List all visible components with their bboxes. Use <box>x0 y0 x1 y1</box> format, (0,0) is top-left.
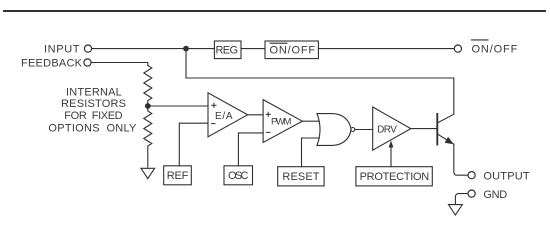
svg-text:ON/OFF: ON/OFF <box>270 44 316 56</box>
RESET box <box>278 167 324 186</box>
wire GND terminal to ground <box>455 194 468 205</box>
junction input node dot <box>183 46 189 52</box>
svg-text:RESISTORS: RESISTORS <box>61 98 126 110</box>
svg-text:FEEDBACK: FEEDBACK <box>21 58 83 70</box>
svg-text:GND: GND <box>483 189 507 201</box>
wire REF riser to E/A - input <box>179 123 208 166</box>
PROTECTION box <box>356 167 432 186</box>
wire PROTECTION riser <box>390 147 392 167</box>
wire gate bubble to DRV <box>355 129 373 131</box>
wire E/A output to PWM + input <box>248 114 264 116</box>
transistor Q1 emitter <box>437 134 454 144</box>
minus sign PWM <box>266 131 271 133</box>
node ON/OFF terminal <box>454 45 461 52</box>
resistor R1 <box>144 66 152 104</box>
ground (open arrow) at GND <box>449 205 463 215</box>
svg-text:E/A: E/A <box>215 111 233 122</box>
plus sign E/A <box>211 104 216 106</box>
junction feedback divider node dot <box>145 103 151 109</box>
svg-text:OUTPUT: OUTPUT <box>483 170 529 182</box>
NOR gate U3 <box>317 114 351 146</box>
REF box <box>164 166 192 185</box>
svg-text:PWM: PWM <box>271 117 291 128</box>
node OUTPUT terminal <box>468 172 475 179</box>
wire INPUT to REG <box>92 48 215 50</box>
driver DRV <box>373 107 411 150</box>
transistor Q1 base bar <box>436 114 438 145</box>
svg-text:ON/OFF: ON/OFF <box>472 44 518 56</box>
transistor Q1 collector <box>437 114 454 123</box>
svg-text:REG: REG <box>216 44 239 56</box>
svg-text:RESET: RESET <box>282 171 319 183</box>
REG box <box>214 41 241 59</box>
wire REG to ON/OFF box <box>241 48 265 50</box>
svg-text:FOR FIXED: FOR FIXED <box>64 110 122 122</box>
svg-text:PROTECTION: PROTECTION <box>360 171 430 183</box>
wire power path junction to transistor collector <box>186 49 454 115</box>
wire OSC riser to PWM - input <box>238 133 263 166</box>
resistor R2 <box>144 109 152 167</box>
comparator PWM <box>263 100 302 143</box>
wire RESET riser to gate lower input <box>302 138 320 167</box>
svg-text:INTERNAL: INTERNAL <box>66 86 122 98</box>
node FEEDBACK terminal <box>84 59 91 66</box>
node INPUT terminal <box>84 45 91 52</box>
node GND terminal <box>468 190 475 197</box>
gate output bubble <box>351 128 355 132</box>
op-amp E/A <box>208 93 248 137</box>
OSC box <box>224 166 253 185</box>
ON/OFF box <box>265 41 318 59</box>
svg-text:REF: REF <box>167 170 189 182</box>
overline for ON/OFF label <box>472 39 489 41</box>
svg-text:OPTIONS ONLY: OPTIONS ONLY <box>48 123 137 135</box>
wire node to E/A + input <box>148 105 208 107</box>
wire emitter to OUTPUT terminal <box>454 144 468 175</box>
svg-text:OSC: OSC <box>228 170 249 182</box>
plus sign PWM <box>266 113 271 115</box>
ground (open arrow) below R2 <box>141 168 155 178</box>
overline ON in box <box>270 42 288 44</box>
wire ON/OFF box to terminal <box>318 48 454 50</box>
arrowhead emitter <box>445 137 454 144</box>
svg-text:INPUT: INPUT <box>44 44 80 56</box>
wire DRV output to Q1 base <box>411 128 438 130</box>
minus sign E/A <box>211 123 216 125</box>
top border rule <box>4 10 545 12</box>
arrowhead PROTECTION to DRV <box>389 141 394 148</box>
wire FEEDBACK to resistor R1 <box>91 63 148 66</box>
svg-text:DRV: DRV <box>377 124 397 135</box>
wire PWM output to gate <box>302 120 319 122</box>
